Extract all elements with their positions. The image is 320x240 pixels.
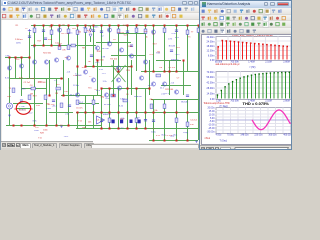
svg-text:T7: T7 bbox=[191, 32, 194, 34]
svg-text:100u: 100u bbox=[151, 132, 156, 134]
svg-text:T15: T15 bbox=[88, 87, 92, 89]
svg-text:C4: C4 bbox=[88, 32, 92, 34]
svg-text:-0.6: -0.6 bbox=[67, 72, 71, 74]
svg-text:R40: R40 bbox=[97, 51, 102, 53]
svg-text:R14: R14 bbox=[36, 105, 41, 107]
svg-text:BC546: BC546 bbox=[104, 104, 111, 106]
svg-text:20.00u: 20.00u bbox=[207, 108, 215, 110]
svg-text:2.80M: 2.80M bbox=[283, 62, 290, 64]
svg-text:BD139: BD139 bbox=[118, 32, 125, 34]
svg-text:5.1k: 5.1k bbox=[103, 81, 108, 83]
svg-text:47k: 47k bbox=[62, 49, 66, 51]
svg-text:C4: C4 bbox=[96, 119, 100, 121]
svg-text:220: 220 bbox=[144, 31, 148, 33]
svg-text:0.75: 0.75 bbox=[175, 37, 180, 39]
svg-text:Pocev_amp_Todorov_-_14kHz-PCB-: Pocev_amp_Todorov_-_14kHz-PCB-diff bbox=[232, 35, 273, 37]
svg-text:C7: C7 bbox=[177, 78, 181, 80]
svg-text:R21 560: R21 560 bbox=[27, 78, 36, 80]
svg-text:1M: 1M bbox=[30, 93, 33, 95]
svg-text:8.2k: 8.2k bbox=[33, 121, 38, 123]
svg-text:35.8: 35.8 bbox=[96, 90, 101, 92]
svg-text:18.00m: 18.00m bbox=[207, 45, 215, 48]
svg-text:R21 560: R21 560 bbox=[96, 59, 105, 61]
svg-text:1M: 1M bbox=[88, 61, 91, 63]
svg-text:1n: 1n bbox=[33, 47, 36, 49]
svg-text:-10.00: -10.00 bbox=[208, 125, 215, 127]
svg-text:148.00u: 148.00u bbox=[240, 134, 249, 136]
svg-text:MJE350: MJE350 bbox=[171, 59, 179, 61]
svg-text:2.8Vrms: 2.8Vrms bbox=[15, 38, 23, 41]
svg-text:15.00: 15.00 bbox=[209, 111, 215, 113]
svg-text:BC546: BC546 bbox=[169, 45, 176, 47]
svg-text:THD = 0.075%: THD = 0.075% bbox=[243, 101, 270, 106]
svg-text:BC546: BC546 bbox=[102, 48, 109, 50]
svg-text:R21 560: R21 560 bbox=[43, 53, 52, 55]
svg-text:C2 2u2: C2 2u2 bbox=[24, 82, 32, 84]
svg-text:R19: R19 bbox=[33, 95, 38, 97]
svg-text:10k: 10k bbox=[64, 91, 68, 93]
svg-text:C9: C9 bbox=[126, 94, 130, 96]
svg-text:T7: T7 bbox=[89, 76, 92, 78]
svg-text:R3 100: R3 100 bbox=[110, 59, 118, 61]
svg-text:◀: ◀ bbox=[14, 107, 16, 110]
svg-text:1kHz: 1kHz bbox=[16, 43, 21, 45]
svg-text:400.00u: 400.00u bbox=[283, 134, 292, 136]
svg-text:▶: ▶ bbox=[32, 107, 34, 110]
svg-text:2.80M: 2.80M bbox=[283, 100, 290, 102]
svg-text:0.45: 0.45 bbox=[99, 69, 104, 71]
svg-text:0.00: 0.00 bbox=[210, 98, 215, 101]
svg-text:R28: R28 bbox=[40, 132, 45, 134]
svg-text:5.00: 5.00 bbox=[210, 118, 215, 120]
svg-text:-14.2: -14.2 bbox=[175, 54, 181, 56]
svg-text:C4: C4 bbox=[30, 85, 34, 87]
svg-text:10k: 10k bbox=[154, 110, 158, 112]
svg-text:22.1: 22.1 bbox=[165, 93, 170, 95]
svg-text:+35.2: +35.2 bbox=[27, 113, 33, 115]
svg-text:-5.00: -5.00 bbox=[209, 121, 215, 123]
svg-text:C2 2u2: C2 2u2 bbox=[190, 120, 198, 122]
svg-text:-35.1: -35.1 bbox=[69, 94, 75, 96]
svg-text:-35.1: -35.1 bbox=[173, 134, 179, 136]
svg-text:0.98: 0.98 bbox=[172, 33, 177, 35]
svg-text:2.10M: 2.10M bbox=[265, 62, 272, 64]
svg-text:-35.1: -35.1 bbox=[64, 136, 70, 138]
svg-text:R5 2.2k: R5 2.2k bbox=[167, 71, 175, 73]
svg-text:T5: T5 bbox=[188, 36, 191, 38]
svg-text:BC546: BC546 bbox=[181, 102, 188, 104]
svg-text:+35.2: +35.2 bbox=[52, 106, 58, 108]
svg-text:1.00: 1.00 bbox=[216, 100, 221, 102]
svg-text:70.00m: 70.00m bbox=[207, 71, 215, 74]
svg-text:24.00m: 24.00m bbox=[207, 40, 215, 43]
svg-text:Todorov-amp-Pocev-THD: Todorov-amp-Pocev-THD bbox=[204, 102, 230, 105]
svg-text:R1: R1 bbox=[16, 25, 20, 27]
svg-text:f (Hz): f (Hz) bbox=[250, 66, 256, 69]
svg-text:+2.5: +2.5 bbox=[102, 73, 107, 75]
svg-text:1n: 1n bbox=[137, 117, 140, 119]
svg-text:28.00m: 28.00m bbox=[207, 87, 215, 90]
svg-text:4.00u: 4.00u bbox=[216, 134, 222, 136]
svg-text:10k: 10k bbox=[78, 31, 82, 33]
svg-text:BC546: BC546 bbox=[75, 75, 82, 77]
svg-text:T (Sec): T (Sec) bbox=[220, 141, 228, 143]
svg-text:14.00m: 14.00m bbox=[207, 92, 215, 95]
svg-text:R22: R22 bbox=[16, 59, 21, 61]
svg-text:1k: 1k bbox=[146, 37, 149, 39]
svg-text:100n: 100n bbox=[43, 130, 48, 132]
svg-text:100u: 100u bbox=[68, 33, 73, 35]
svg-text:6.00m: 6.00m bbox=[208, 54, 215, 57]
svg-text:70.00u: 70.00u bbox=[227, 134, 235, 136]
svg-text:MJE350: MJE350 bbox=[134, 96, 142, 98]
svg-text:MJE350: MJE350 bbox=[103, 114, 111, 116]
svg-text:C12: C12 bbox=[35, 127, 40, 129]
svg-text:(T, Deg): (T, Deg) bbox=[220, 106, 228, 108]
svg-text:asd-todorov-pcb-14k-yc: asd-todorov-pcb-14k-yc bbox=[216, 63, 241, 66]
svg-text:30.00m: 30.00m bbox=[207, 36, 215, 39]
svg-text:56.00m: 56.00m bbox=[207, 76, 215, 79]
svg-text:1M: 1M bbox=[159, 67, 162, 69]
svg-text:R22: R22 bbox=[56, 84, 61, 86]
svg-text:1.40M: 1.40M bbox=[248, 62, 255, 64]
svg-text:T2: T2 bbox=[152, 34, 155, 36]
svg-text:R8: R8 bbox=[89, 26, 93, 28]
svg-text:R22: R22 bbox=[176, 47, 181, 49]
svg-text:T15: T15 bbox=[49, 27, 53, 29]
svg-text:12.4m: 12.4m bbox=[73, 85, 79, 87]
svg-text:2.2k: 2.2k bbox=[65, 114, 70, 116]
svg-text:R19: R19 bbox=[126, 70, 131, 72]
svg-text:10k: 10k bbox=[88, 121, 92, 123]
svg-text:100u: 100u bbox=[34, 130, 39, 132]
svg-text:220.00u: 220.00u bbox=[254, 134, 263, 136]
svg-text:R21 560: R21 560 bbox=[165, 89, 174, 91]
svg-text:22.1: 22.1 bbox=[160, 87, 165, 89]
svg-text:+C: +C bbox=[25, 28, 28, 30]
svg-text:3.3k: 3.3k bbox=[190, 124, 195, 126]
svg-text:R5 2.2k: R5 2.2k bbox=[19, 109, 27, 111]
svg-text:0.22: 0.22 bbox=[156, 135, 161, 137]
svg-text:R17: R17 bbox=[37, 41, 42, 43]
svg-text:R19: R19 bbox=[153, 43, 158, 45]
svg-text:12.00m: 12.00m bbox=[207, 50, 215, 53]
svg-text:R8: R8 bbox=[55, 93, 59, 95]
svg-text:0.98: 0.98 bbox=[101, 56, 106, 58]
svg-text:0.75: 0.75 bbox=[168, 38, 173, 40]
svg-text:T12: T12 bbox=[78, 120, 82, 122]
svg-text:R12: R12 bbox=[58, 43, 63, 45]
svg-text:+35.2: +35.2 bbox=[78, 102, 84, 104]
svg-text:-3.3: -3.3 bbox=[171, 83, 175, 85]
svg-text:R28: R28 bbox=[7, 96, 12, 98]
svg-text:-20.00u: -20.00u bbox=[207, 131, 216, 133]
svg-text:8.2k: 8.2k bbox=[156, 52, 161, 54]
svg-text:C5 47u: C5 47u bbox=[169, 67, 177, 69]
svg-text:1.2: 1.2 bbox=[101, 36, 105, 38]
svg-text:R12: R12 bbox=[65, 57, 70, 59]
svg-text:T11: T11 bbox=[38, 138, 42, 140]
svg-text:6.8m: 6.8m bbox=[46, 108, 51, 110]
svg-text:T5: T5 bbox=[9, 88, 12, 90]
svg-text:xTout: xTout bbox=[205, 137, 211, 140]
svg-text:6.8m: 6.8m bbox=[120, 98, 125, 100]
svg-text:1.79m: 1.79m bbox=[19, 106, 25, 108]
svg-text:100n: 100n bbox=[94, 26, 99, 28]
svg-text:-15.00: -15.00 bbox=[208, 128, 215, 130]
svg-text:100n: 100n bbox=[48, 39, 53, 41]
svg-text:68p: 68p bbox=[101, 97, 105, 99]
svg-text:C5 47u: C5 47u bbox=[76, 108, 84, 110]
svg-text:10.00: 10.00 bbox=[209, 114, 215, 116]
svg-text:6.8m: 6.8m bbox=[21, 89, 26, 91]
svg-text:8.2k: 8.2k bbox=[119, 106, 124, 108]
svg-text:5.1k: 5.1k bbox=[121, 118, 126, 120]
svg-text:C4: C4 bbox=[113, 39, 117, 41]
svg-text:700.00k: 700.00k bbox=[230, 100, 239, 102]
svg-text:-14.2: -14.2 bbox=[95, 62, 101, 64]
svg-text:42.00m: 42.00m bbox=[207, 82, 215, 85]
svg-text:300.00u: 300.00u bbox=[268, 134, 277, 136]
